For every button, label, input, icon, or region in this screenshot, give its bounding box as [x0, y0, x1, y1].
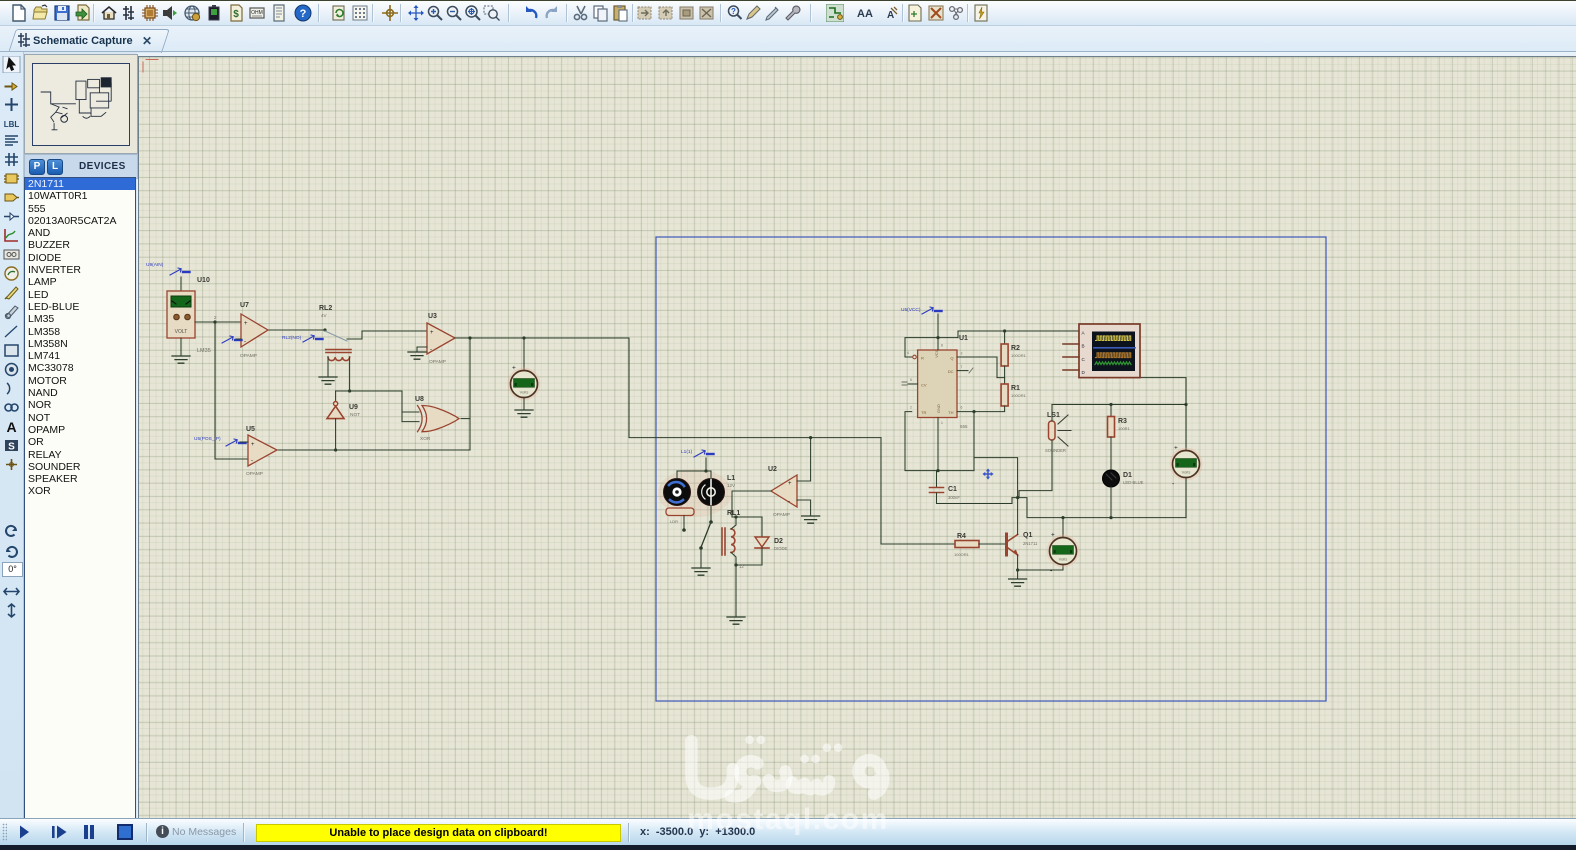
VCC wire	[937, 314, 939, 350]
CV stub	[908, 383, 918, 385]
svg-text:TH: TH	[948, 410, 953, 415]
U2 output to RL1	[732, 491, 771, 517]
svg-text:300nF: 300nF	[948, 495, 960, 500]
wire VOLT to U7	[195, 321, 241, 323]
svg-text:100R1: 100R1	[1118, 426, 1131, 431]
svg-text:U9(AIN): U9(AIN)	[146, 262, 164, 268]
watermark arabic mustaql	[691, 741, 883, 796]
svg-text:CV: CV	[921, 383, 927, 388]
svg-text:U3: U3	[428, 313, 437, 320]
svg-text:Volts: Volts	[520, 390, 529, 395]
volt meter M1	[523, 338, 525, 370]
svg-text:VOLT: VOLT	[175, 329, 188, 335]
svg-text:2N1711: 2N1711	[1023, 541, 1038, 546]
wire to scope A	[972, 330, 1079, 332]
svg-text:NOT: NOT	[350, 412, 360, 418]
svg-text:R1: R1	[1011, 385, 1020, 392]
wire hop	[958, 331, 972, 338]
resistor R4	[955, 541, 979, 548]
rail to pin4	[905, 338, 958, 357]
svg-text:3: 3	[961, 352, 963, 356]
sheet edge marks	[143, 60, 158, 73]
resistor R1	[1004, 378, 1006, 384]
motor disc	[658, 469, 732, 517]
svg-text:R: R	[921, 356, 924, 361]
svg-text:RL2: RL2	[319, 305, 332, 312]
svg-text:D2: D2	[774, 538, 783, 545]
pause button	[86, 825, 92, 839]
svg-text:8: 8	[941, 344, 943, 348]
svg-text:-: -	[244, 339, 246, 345]
svg-text:XOR: XOR	[420, 436, 431, 442]
svg-text:OPAMP: OPAMP	[429, 359, 446, 365]
Q pin wire	[957, 357, 997, 378]
op-amp U7	[241, 314, 268, 347]
top rail right section	[1052, 404, 1186, 406]
ground under M1	[523, 398, 525, 409]
LED D1	[1103, 470, 1120, 487]
oscilloscope	[1079, 324, 1140, 378]
lamp top wires	[677, 470, 711, 472]
switch U10	[170, 268, 190, 275]
555 timer U1	[918, 350, 957, 418]
svg-text:Q1: Q1	[1023, 532, 1032, 539]
svg-text:4: 4	[907, 351, 909, 355]
wire R4 to Q1 base	[979, 543, 1005, 545]
svg-text:DC: DC	[948, 369, 954, 374]
svg-text:12: 12	[739, 564, 744, 569]
capacitor C1	[936, 471, 938, 487]
svg-text:+: +	[251, 442, 255, 448]
TH pin node	[957, 411, 974, 413]
svg-text:D1: D1	[1123, 472, 1132, 479]
svg-text:OPAMP: OPAMP	[773, 512, 790, 518]
svg-text:100OR1: 100OR1	[954, 552, 970, 557]
step button	[52, 826, 55, 838]
long wire U3 out	[455, 337, 629, 339]
svg-text:+: +	[244, 321, 248, 327]
ground at U2 negative input	[802, 516, 820, 523]
svg-text:C1: C1	[948, 486, 957, 493]
ground at Q1 emitter	[1017, 570, 1019, 578]
svg-text:OPAMP: OPAMP	[246, 471, 263, 477]
svg-text:5: 5	[910, 378, 912, 382]
wire rail to M4 top	[1185, 405, 1187, 451]
pan cursor	[982, 468, 993, 479]
DC pin stub	[957, 370, 968, 372]
svg-text:2: 2	[214, 315, 217, 320]
svg-text:LED-BLUE: LED-BLUE	[1123, 480, 1144, 485]
lamp bottom switch to ground	[710, 506, 712, 522]
ground under RL1 coil	[727, 617, 745, 624]
svg-text:+: +	[1051, 532, 1055, 539]
U2 + input from top	[809, 436, 812, 439]
switch at U7 negative input	[222, 336, 242, 343]
svg-text:U8: U8	[415, 396, 424, 403]
svg-text:LS1: LS1	[1047, 412, 1060, 419]
transistor Q1	[1005, 534, 1008, 555]
svg-text:U1: U1	[959, 335, 968, 342]
svg-text:12V: 12V	[727, 483, 735, 488]
svg-text:RL2(NO): RL2(NO)	[282, 335, 302, 341]
wire to right section	[629, 338, 881, 438]
svg-text:L1: L1	[727, 475, 735, 482]
svg-text:Volts: Volts	[1059, 557, 1068, 562]
relay coil RL2	[326, 350, 351, 353]
svg-text:+: +	[430, 330, 434, 336]
svg-text:TR: TR	[921, 410, 926, 415]
XOR gate U8	[401, 391, 403, 422]
svg-text:2: 2	[910, 406, 912, 410]
U2 - input to ground	[797, 500, 811, 515]
NOT gate U9	[335, 391, 337, 401]
svg-text:R4: R4	[957, 533, 966, 540]
svg-text:Q: Q	[950, 356, 953, 361]
wire RL2 coil to ground	[327, 357, 329, 376]
svg-text:OPAMP: OPAMP	[240, 353, 257, 359]
svg-text:7: 7	[961, 365, 963, 369]
svg-text:U5(VCC): U5(VCC)	[901, 307, 921, 313]
op-amp U2 (points left)	[771, 475, 797, 507]
svg-text:555: 555	[960, 424, 968, 429]
svg-text:4V: 4V	[321, 313, 327, 318]
svg-text:+: +	[512, 365, 516, 372]
GND pin wire	[937, 418, 939, 471]
wire to R4	[881, 438, 955, 544]
svg-text:6: 6	[961, 406, 963, 410]
scope input stubs	[1063, 344, 1079, 370]
play button	[20, 826, 29, 839]
wire R3 to D1	[1110, 437, 1112, 471]
svg-text:SOUNDER: SOUNDER	[1045, 448, 1066, 453]
node A vertical	[213, 320, 216, 323]
svg-text:1: 1	[941, 421, 943, 425]
svg-text:LM35: LM35	[197, 348, 211, 354]
lamp L1	[698, 479, 725, 506]
svg-text:100OR1: 100OR1	[1011, 353, 1027, 358]
volt meter M3	[1018, 565, 1063, 571]
ground RL2 coil	[319, 377, 337, 384]
wire U7 out to RL2 contact	[269, 329, 325, 331]
stop button	[118, 825, 132, 839]
svg-text:U2: U2	[768, 466, 777, 473]
wire U10 to VOLT	[180, 277, 182, 291]
svg-text:RL1: RL1	[727, 510, 740, 517]
bottom wire U5 out	[334, 448, 337, 451]
resistor R2	[1004, 331, 1006, 344]
ground under lamp switch	[692, 568, 710, 575]
diode D2	[761, 517, 763, 537]
selection box	[656, 237, 1326, 701]
op-amp U5	[248, 435, 277, 466]
vertical joining wire	[469, 338, 471, 450]
svg-text:B: B	[1082, 344, 1085, 349]
sensor VOLT (LM35)	[167, 291, 195, 338]
LDR plate	[666, 508, 694, 516]
svg-text:GND: GND	[936, 404, 941, 413]
ground under VOLT	[180, 338, 182, 355]
svg-text:U9: U9	[349, 404, 358, 411]
scope wire	[1140, 378, 1186, 405]
TR pin wire	[905, 412, 974, 471]
op-amp U3	[427, 323, 455, 354]
svg-text:-: -	[430, 347, 432, 353]
resistor R3	[1110, 405, 1112, 417]
svg-text:U5: U5	[246, 426, 255, 433]
svg-text:-: -	[1172, 481, 1175, 488]
svg-text:+: +	[1174, 445, 1178, 452]
svg-text:Volts: Volts	[1182, 470, 1191, 475]
svg-text:R3: R3	[1118, 418, 1127, 425]
svg-text:DIODE: DIODE	[774, 546, 787, 551]
svg-text:+: +	[788, 481, 792, 487]
ground at U3 input	[417, 347, 427, 351]
svg-text:100OR1: 100OR1	[1011, 393, 1027, 398]
svg-text:L1(1): L1(1)	[681, 449, 693, 455]
svg-text:-: -	[1050, 568, 1053, 575]
svg-text:U7: U7	[240, 302, 249, 309]
svg-text:U10: U10	[197, 277, 210, 284]
svg-text:U5(POS_IP): U5(POS_IP)	[194, 436, 221, 442]
svg-text:R2: R2	[1011, 345, 1020, 352]
svg-text:LDR: LDR	[670, 519, 678, 524]
svg-text:-: -	[251, 458, 253, 464]
svg-text:-: -	[788, 499, 790, 505]
bottom rail right section	[1018, 498, 1186, 518]
wire coil to NOT/XOR	[348, 389, 351, 392]
